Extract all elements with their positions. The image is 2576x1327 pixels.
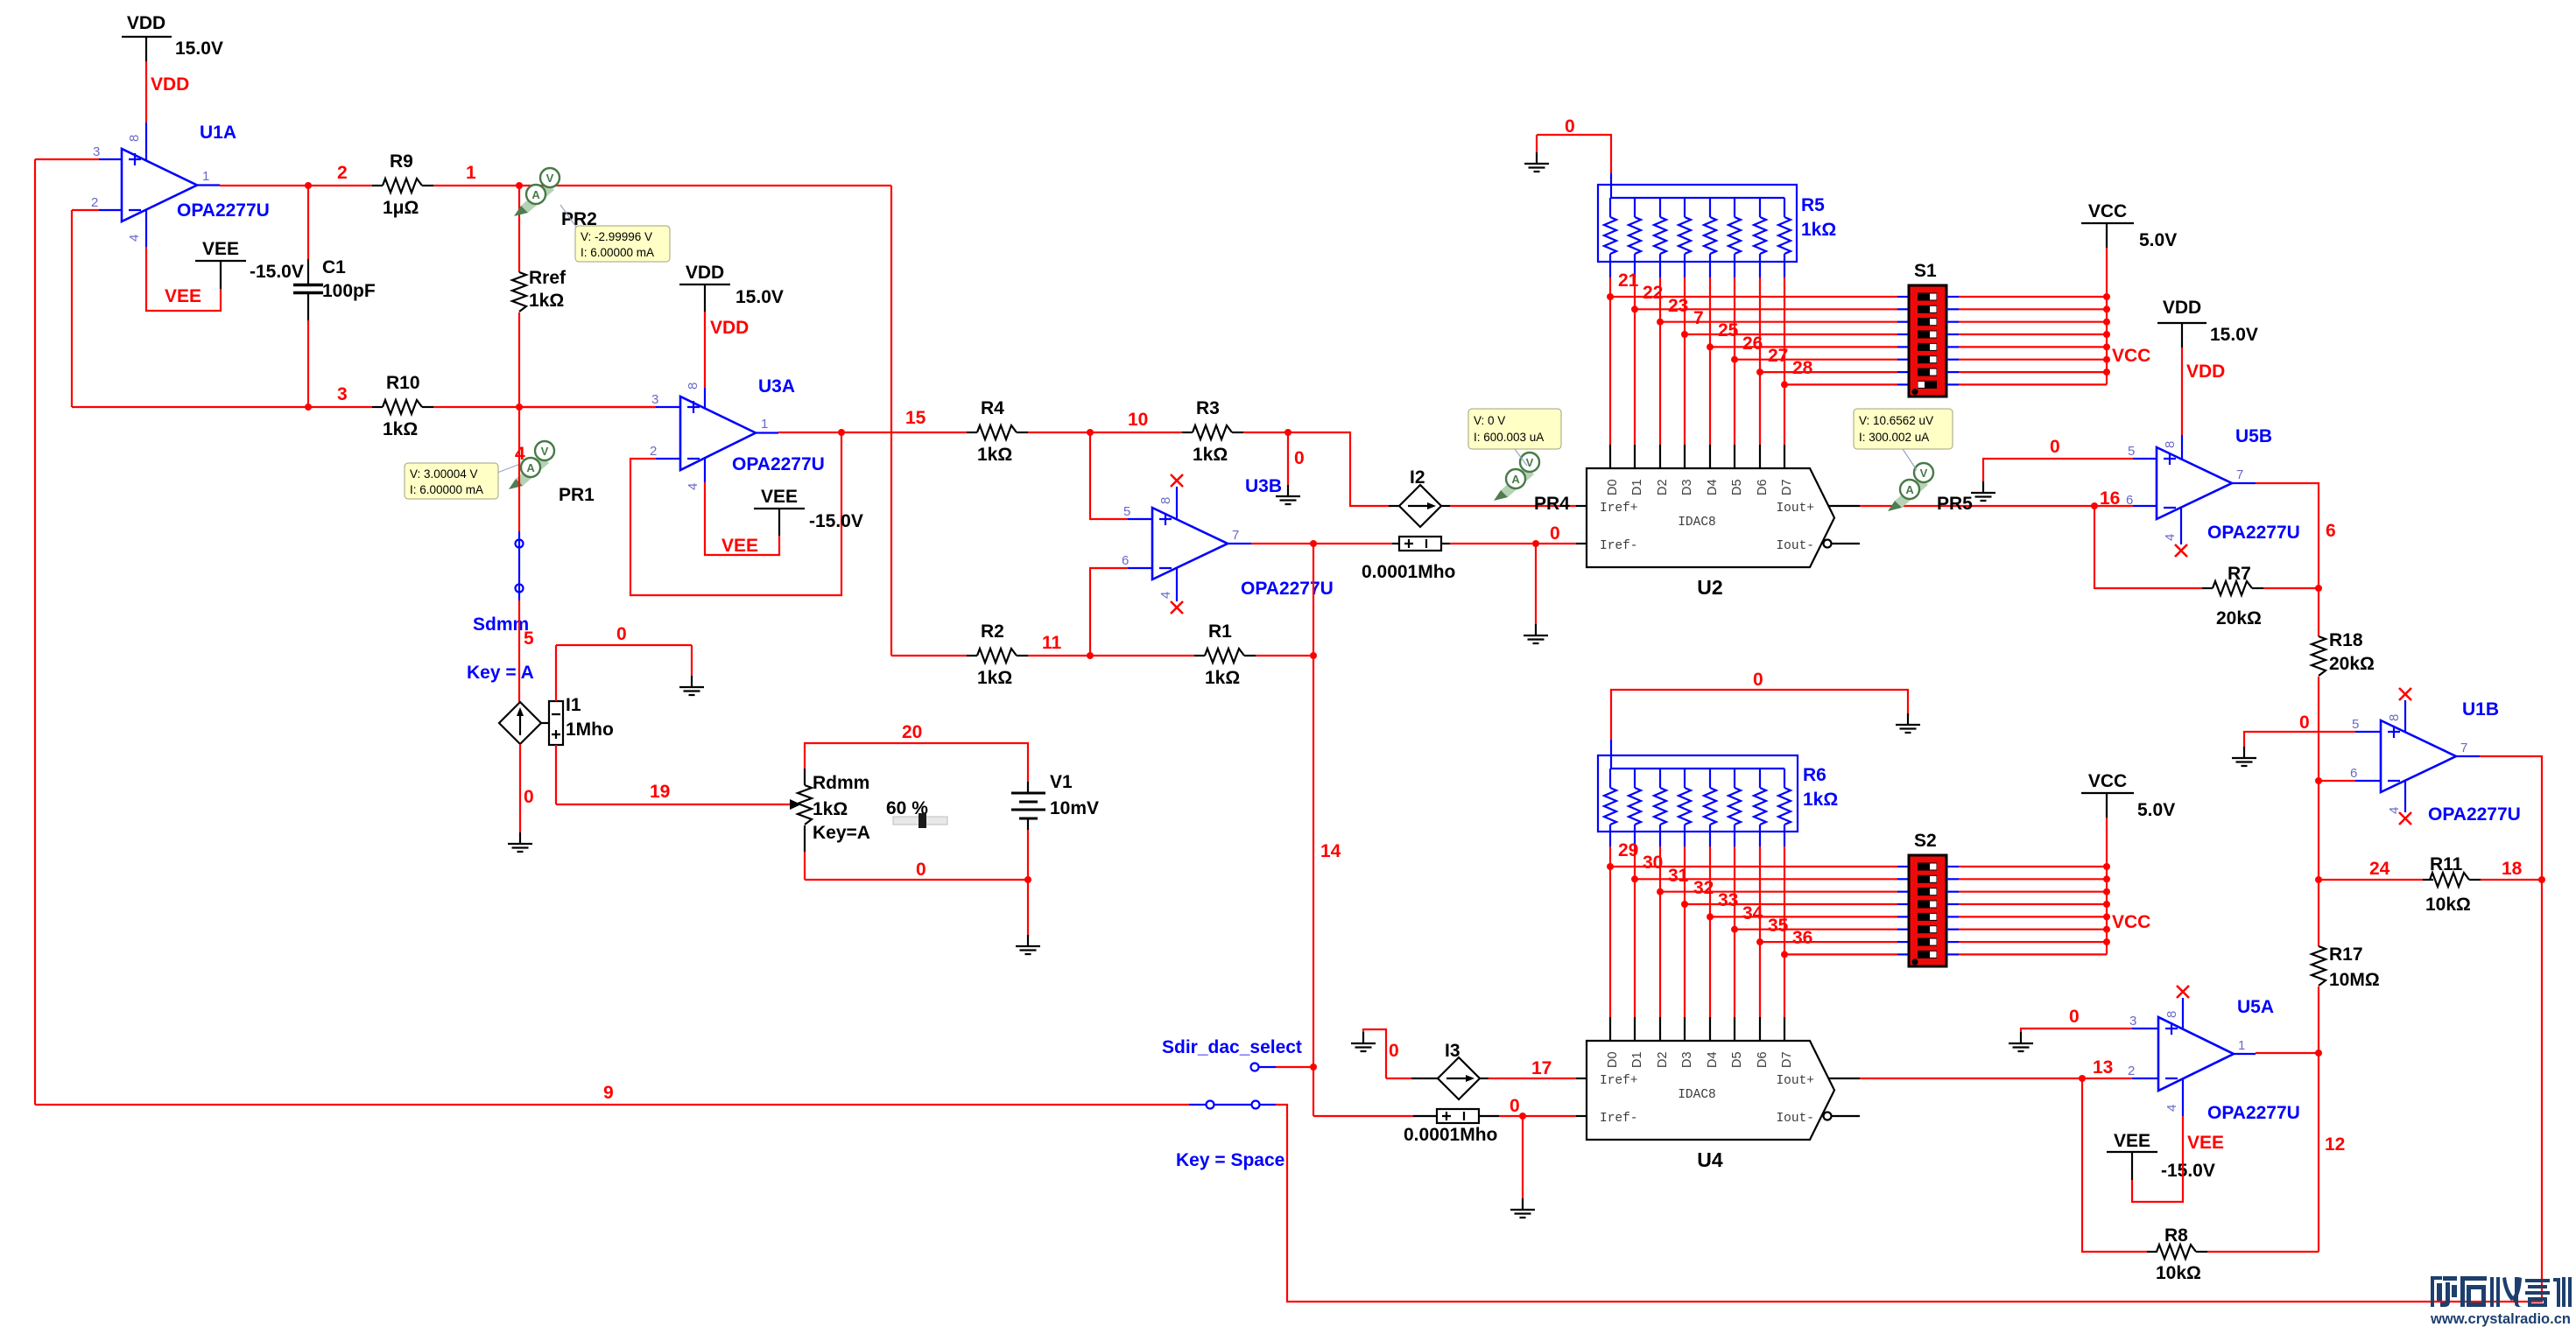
battery V1	[1011, 772, 1099, 830]
junctions VCC rail (S1)	[2103, 293, 2110, 376]
svg-text:26: 26	[1742, 334, 1763, 354]
svg-text:4: 4	[2164, 1105, 2179, 1112]
svg-text:R2: R2	[981, 621, 1004, 642]
wire net 13 (U4 Iout+ to U5A pin2)	[1860, 1078, 2082, 1079]
I1 sense element	[549, 701, 563, 745]
svg-text:IDAC8: IDAC8	[1678, 1088, 1716, 1102]
svg-text:VDD: VDD	[2186, 362, 2225, 382]
svg-text:36: 36	[1792, 928, 1812, 948]
I3 sense element	[1404, 1109, 1497, 1145]
op-amp U1B	[2350, 699, 2521, 825]
svg-text:25: 25	[1718, 320, 1739, 341]
wire U5B feedback (pin6 to R7)	[2094, 506, 2202, 588]
ground (I1 bottom)	[508, 832, 532, 852]
svg-text:VEE: VEE	[761, 487, 798, 507]
resistor R2	[967, 621, 1028, 688]
junction R11 left	[2315, 876, 2322, 883]
wire I2 sense right to U2 Iref-	[1441, 543, 1587, 544]
wire net 18 bottom loop	[1276, 880, 2542, 1302]
svg-text:1kΩ: 1kΩ	[383, 419, 418, 439]
svg-text:8: 8	[2387, 714, 2402, 721]
svg-text:5: 5	[2352, 717, 2359, 732]
wire taps nets 21-28 to S1	[1610, 297, 1897, 384]
svg-text:21: 21	[1618, 270, 1639, 291]
svg-text:U5A: U5A	[2237, 997, 2274, 1017]
svg-text:2: 2	[650, 444, 657, 459]
svg-text:5: 5	[524, 628, 534, 649]
junction U3B output	[1310, 540, 1317, 547]
DIP switch S1	[1909, 261, 1946, 397]
ground (U1B pin5)	[2232, 747, 2256, 766]
wire R6 outputs down to U4 data pins	[1610, 846, 1784, 1017]
svg-text:D1: D1	[1630, 1051, 1644, 1068]
resistor R9	[372, 151, 433, 218]
wire net 19 (I1 sense to Rdmm wiper)	[556, 745, 782, 804]
wire U1B pin5 net 0 to ground	[2244, 732, 2381, 747]
wire net 1 (R9 to corner, down to R2 row)	[433, 186, 891, 656]
junction net 16	[2091, 502, 2098, 509]
resistor R8	[2147, 1225, 2207, 1283]
svg-text:1kΩ: 1kΩ	[1803, 790, 1838, 810]
svg-text:D2: D2	[1656, 479, 1670, 495]
junction R7 right	[2315, 585, 2322, 592]
wire U3A output net 15	[756, 432, 967, 434]
wire U1A pin2 feedback from R10 row	[72, 210, 122, 407]
svg-text:7: 7	[1693, 308, 1704, 328]
wire R7 to net 6 vertical	[2263, 587, 2319, 589]
junction Iref- ground node	[1532, 540, 1539, 547]
svg-text:Iout-: Iout-	[1776, 539, 1814, 553]
svg-text:I2: I2	[1410, 467, 1425, 488]
svg-text:U1A: U1A	[200, 123, 236, 143]
svg-text:R11: R11	[2430, 854, 2463, 874]
svg-text:1kΩ: 1kΩ	[1801, 220, 1836, 240]
svg-text:U5B: U5B	[2235, 426, 2272, 446]
svg-text:24: 24	[2369, 859, 2390, 879]
U1B pin8 stub with X	[2399, 688, 2411, 732]
svg-text:29: 29	[1618, 840, 1638, 860]
svg-text:4: 4	[127, 235, 142, 242]
svg-text:V: 3.00004 V: V: 3.00004 V	[410, 467, 478, 481]
junction node 2 / C1 top	[305, 182, 312, 189]
svg-text:VDD: VDD	[686, 263, 724, 283]
junction C1 bottom	[305, 404, 312, 411]
svg-text:V: -2.99996 V: V: -2.99996 V	[581, 230, 652, 243]
svg-text:0: 0	[1550, 523, 1560, 544]
svg-text:1: 1	[202, 169, 209, 184]
svg-text:1kΩ: 1kΩ	[977, 668, 1012, 688]
svg-text:VDD: VDD	[710, 318, 749, 338]
junctions nets 29-36	[1607, 863, 1788, 958]
svg-text:R18: R18	[2329, 630, 2363, 650]
svg-text:7: 7	[2460, 741, 2467, 755]
svg-text:5.0V: 5.0V	[2137, 800, 2175, 820]
svg-text:VEE: VEE	[721, 536, 758, 556]
DIP switch S2	[1909, 831, 1946, 966]
svg-text:VDD: VDD	[127, 13, 165, 33]
svg-text:4: 4	[686, 483, 700, 490]
svg-text:I: 600.003 uA: I: 600.003 uA	[1474, 431, 1544, 444]
wire net 24 (R11 row)	[2319, 879, 2423, 881]
wire U3B pin6 from node 11	[1090, 568, 1152, 656]
wire S1 left stubs (blue)	[1897, 297, 1909, 384]
wire net 9 left vertical	[34, 159, 36, 1105]
junction U1B pin6 node	[2315, 777, 2322, 784]
svg-text:U1B: U1B	[2462, 699, 2499, 720]
svg-text:R6: R6	[1803, 765, 1826, 785]
svg-text:Key = Space: Key = Space	[1176, 1150, 1284, 1170]
wire taps nets 29-36 to S2	[1610, 867, 1897, 954]
IDAC8 U4	[1587, 1041, 1834, 1171]
svg-text:5.0V: 5.0V	[2139, 230, 2177, 250]
svg-text:VCC: VCC	[2088, 771, 2127, 791]
U3B pin8 stub with X	[1171, 474, 1183, 519]
svg-text:VEE: VEE	[165, 286, 201, 306]
svg-text:VEE: VEE	[2114, 1131, 2150, 1151]
wire net 1 to R2	[891, 655, 967, 656]
svg-text:8: 8	[2163, 441, 2178, 448]
probe PR1	[509, 441, 595, 505]
probe PR1 note	[405, 463, 520, 499]
wire Iref- node down to ground	[1535, 544, 1537, 624]
resistor Rref	[512, 186, 567, 407]
svg-text:U3A: U3A	[758, 376, 795, 397]
svg-text:1kΩ: 1kΩ	[1193, 445, 1228, 465]
svg-text:3: 3	[337, 384, 348, 404]
U4 Iout+ pin wire	[1828, 1078, 1860, 1079]
wire U3A pin4 to VEE	[705, 459, 779, 555]
svg-text:S2: S2	[1914, 831, 1937, 851]
wire S1 right stubs (blue)	[1946, 297, 1959, 384]
logo graphic	[2431, 1276, 2572, 1307]
svg-text:D7: D7	[1780, 479, 1794, 495]
wire I2 output to U2 Iref+	[1450, 505, 1587, 507]
wire S1 right rows to VCC rail	[1959, 248, 2107, 384]
svg-text:0: 0	[916, 860, 926, 880]
ground (Iref- net)	[1524, 624, 1548, 643]
probe PR5	[1888, 463, 1973, 514]
VEE power symbol (U3A supply)	[754, 487, 863, 536]
ground (V1 bottom)	[1016, 935, 1040, 954]
svg-text:R9: R9	[390, 151, 413, 172]
svg-text:D0: D0	[1606, 479, 1620, 495]
wire VDD to U5B pin8	[2181, 348, 2183, 459]
svg-text:Rref: Rref	[529, 268, 567, 288]
svg-text:23: 23	[1668, 296, 1688, 316]
wire net 0 above R6 to ground	[1611, 690, 1908, 740]
VEE power symbol (U5A supply)	[2107, 1131, 2215, 1181]
svg-text:R4: R4	[981, 398, 1004, 418]
junction U5A pin2	[2079, 1075, 2086, 1082]
wire net 9 (bottom long run)	[35, 1104, 1189, 1106]
svg-text:19: 19	[650, 782, 670, 802]
wire U3B pin5 from node 10	[1090, 432, 1152, 519]
svg-text:I: 6.00000 mA: I: 6.00000 mA	[410, 483, 483, 496]
svg-text:U2: U2	[1697, 576, 1722, 599]
svg-text:11: 11	[1042, 633, 1062, 653]
ground (R6 common)	[1896, 713, 1920, 733]
VDD power symbol (U3A supply)	[679, 263, 784, 312]
VDD power symbol (U5B supply)	[2157, 298, 2258, 348]
svg-text:4: 4	[1158, 592, 1173, 599]
svg-text:100pF: 100pF	[322, 281, 376, 301]
svg-text:1: 1	[761, 417, 768, 432]
svg-text:Key=A: Key=A	[813, 823, 870, 843]
svg-text:6: 6	[1122, 553, 1129, 568]
wire R8 to net 12	[2207, 1251, 2319, 1253]
wire node 0 to I2 input	[1288, 432, 1389, 506]
VEE power symbol (U1A supply)	[195, 239, 304, 289]
wire U4 Iref- node down to ground	[1522, 1116, 1524, 1198]
wire I1 bottom to ground	[519, 744, 521, 832]
svg-text:5: 5	[1123, 504, 1130, 519]
wire D-pin stubs U4 (black)	[1610, 1017, 1784, 1041]
wire S2 right rows to VCC rail	[1959, 818, 2107, 954]
resistor R7	[2202, 564, 2263, 628]
svg-text:9: 9	[603, 1083, 614, 1103]
svg-text:27: 27	[1768, 346, 1788, 366]
svg-text:www.crystalradio.cn: www.crystalradio.cn	[2430, 1310, 2571, 1327]
svg-text:0: 0	[616, 624, 627, 644]
svg-text:2: 2	[2128, 1064, 2135, 1078]
wire S2 right stubs (blue)	[1946, 867, 1959, 954]
svg-text:Iref-: Iref-	[1600, 1112, 1638, 1126]
svg-text:R17: R17	[2329, 944, 2363, 965]
svg-text:D5: D5	[1730, 1051, 1744, 1068]
svg-text:20kΩ: 20kΩ	[2216, 608, 2262, 628]
svg-text:Sdir_dac_select: Sdir_dac_select	[1162, 1037, 1302, 1057]
wire net 16 (U2 Iout+ to U5B pin6)	[1860, 505, 2157, 507]
wire U1B output net 18	[2456, 756, 2542, 880]
current source I2 (CCCS diamond)	[1389, 467, 1450, 527]
svg-text:34: 34	[1742, 903, 1763, 923]
svg-text:4: 4	[2163, 534, 2178, 541]
wire U1B pin6	[2319, 781, 2381, 880]
svg-text:6: 6	[2126, 493, 2133, 508]
svg-text:1: 1	[466, 163, 476, 183]
svg-text:D6: D6	[1756, 479, 1770, 495]
svg-text:OPA2277U: OPA2277U	[2428, 804, 2521, 825]
svg-text:R8: R8	[2164, 1225, 2188, 1246]
svg-text:28: 28	[1792, 358, 1813, 378]
junction node 0 (right of R3)	[1284, 429, 1292, 436]
svg-text:Iref+: Iref+	[1600, 1074, 1638, 1088]
svg-text:6: 6	[2326, 521, 2336, 541]
net labels 29 30 31 32 33 34 35 36	[1618, 840, 1812, 948]
junction R11 right	[2538, 876, 2545, 883]
svg-text:D0: D0	[1606, 1051, 1620, 1068]
wire R1 to net 14 vertical	[1256, 655, 1313, 656]
ground (R3 node 0)	[1276, 485, 1300, 504]
svg-text:16: 16	[2100, 488, 2120, 509]
wire net 3 (R10 row)	[72, 406, 372, 408]
VCC power symbol (S2)	[2081, 771, 2175, 820]
wire I3 output net 17 to U4 Iref+	[1480, 1078, 1587, 1079]
svg-text:Iout+: Iout+	[1776, 502, 1814, 516]
svg-text:0: 0	[524, 787, 534, 807]
wire U5A output net 12	[2234, 1053, 2319, 1054]
svg-text:0.0001Mho: 0.0001Mho	[1362, 562, 1455, 582]
svg-text:Sdmm: Sdmm	[473, 614, 529, 635]
svg-text:U3B: U3B	[1245, 476, 1282, 496]
svg-text:Rdmm: Rdmm	[813, 773, 869, 793]
resistor R11	[2423, 854, 2481, 915]
svg-text:VEE: VEE	[2187, 1133, 2224, 1153]
op-amp U1A	[91, 123, 270, 242]
svg-text:Iref+: Iref+	[1600, 502, 1638, 516]
ground (I3 top)	[1351, 1032, 1376, 1051]
junction R1 right on net 14	[1310, 652, 1317, 659]
junction U3A feedback node	[838, 429, 845, 436]
svg-text:Iref-: Iref-	[1600, 539, 1638, 553]
wire net 0 above R5 to ground	[1537, 135, 1611, 173]
svg-text:PR1: PR1	[559, 485, 595, 505]
svg-text:1kΩ: 1kΩ	[1205, 668, 1240, 688]
VDD power symbol (U1A supply)	[122, 13, 223, 61]
wire net 14 vertical	[1313, 544, 1314, 1116]
wire U5A pin3 net 0 to ground	[2021, 1029, 2158, 1032]
svg-text:8: 8	[686, 383, 700, 390]
ground (U5B pin5)	[1971, 481, 1995, 501]
svg-text:15.0V: 15.0V	[735, 287, 784, 307]
svg-text:U4: U4	[1697, 1148, 1723, 1171]
svg-text:20kΩ: 20kΩ	[2329, 654, 2375, 674]
svg-text:OPA2277U: OPA2277U	[177, 200, 270, 221]
svg-text:V1: V1	[1050, 772, 1073, 792]
wire U5B pin5 net 0 to ground	[1983, 459, 2157, 481]
wire R10 to node 4	[433, 406, 656, 408]
svg-text:0: 0	[2069, 1007, 2080, 1027]
svg-text:I1: I1	[566, 695, 581, 715]
wire U5A pin2 net 13	[2082, 1078, 2158, 1079]
wire I2 sense left lead	[1392, 543, 1399, 544]
switch Key = Space	[1176, 1101, 1284, 1171]
svg-text:13: 13	[2093, 1057, 2113, 1078]
svg-text:7: 7	[2236, 467, 2243, 482]
resistor pack R5	[1598, 173, 1836, 277]
wire node 4 to U3A pin3	[519, 406, 680, 408]
svg-text:Iout+: Iout+	[1776, 1074, 1814, 1088]
wire net 13 down to R8	[2082, 1078, 2147, 1252]
svg-text:D4: D4	[1706, 1051, 1720, 1068]
wire U5A pin4 to VEE	[2132, 1079, 2183, 1202]
svg-text:0: 0	[1389, 1041, 1399, 1061]
wire net 20 (Rdmm top to V1 top)	[805, 743, 1028, 782]
svg-text:1kΩ: 1kΩ	[529, 291, 564, 311]
junction U5A output	[2315, 1050, 2322, 1057]
resistor R18	[2312, 588, 2375, 781]
wire U3B output net 14	[1228, 543, 1392, 544]
wire net 0 (V1 bottom / Rdmm bottom)	[805, 830, 1028, 935]
I2 sense element	[1362, 537, 1455, 582]
svg-text:7: 7	[1232, 528, 1239, 543]
svg-text:17: 17	[1531, 1058, 1552, 1078]
probe PR4	[1494, 453, 1570, 514]
svg-text:5: 5	[2128, 444, 2135, 459]
svg-text:0: 0	[1510, 1096, 1520, 1116]
svg-text:0: 0	[2050, 437, 2060, 457]
wire switch to I1	[518, 600, 520, 702]
Rdmm slider 60%	[886, 798, 947, 828]
node Sdir_dac_select	[1162, 1037, 1313, 1071]
svg-text:10kΩ: 10kΩ	[2156, 1263, 2201, 1283]
probe PR2	[514, 168, 597, 229]
svg-text:10mV: 10mV	[1050, 798, 1099, 818]
svg-text:15: 15	[905, 408, 926, 428]
svg-text:I3: I3	[1445, 1041, 1460, 1061]
svg-text:0: 0	[1565, 116, 1575, 137]
svg-text:OPA2277U: OPA2277U	[732, 454, 825, 474]
wire I1 sense top to ground	[556, 645, 692, 701]
wire VDD to U1A pin8	[145, 61, 147, 160]
switch Sdmm	[467, 531, 534, 683]
svg-text:1Mho: 1Mho	[566, 720, 614, 740]
svg-text:VEE: VEE	[202, 239, 239, 259]
wire I3 sense right to U4 Iref-	[1479, 1115, 1587, 1117]
U2 Iout- bubble and stub	[1824, 540, 1861, 548]
IDAC8 U2	[1587, 468, 1834, 599]
wire net 12 vertical	[2318, 1053, 2319, 1252]
svg-text:S1: S1	[1914, 261, 1937, 281]
resistor R4	[967, 398, 1028, 465]
wire VDD to U3A pin8	[704, 312, 706, 408]
probe PR4 note	[1468, 409, 1561, 466]
svg-text:D7: D7	[1780, 1051, 1794, 1068]
wire U1A pin4 to VEE	[146, 210, 221, 311]
junction Sdir stub on net 14	[1310, 1064, 1317, 1071]
svg-text:33: 33	[1718, 890, 1738, 910]
svg-text:1: 1	[2238, 1038, 2245, 1053]
U1B pin4 stub with X	[2399, 781, 2411, 825]
svg-text:3: 3	[2129, 1014, 2136, 1029]
svg-text:Key = A: Key = A	[467, 663, 534, 683]
resistor R10	[372, 373, 433, 439]
resistor R3	[1182, 398, 1243, 465]
probe PR2 note	[560, 205, 670, 262]
svg-text:3: 3	[93, 144, 100, 159]
wire U3A pin2 feedback loop	[630, 432, 841, 595]
svg-text:VDD: VDD	[151, 74, 189, 95]
svg-text:PR5: PR5	[1937, 494, 1973, 514]
junction U4 Iref- ground node	[1519, 1113, 1526, 1120]
svg-text:PR4: PR4	[1534, 494, 1570, 514]
svg-text:VCC: VCC	[2112, 346, 2150, 366]
svg-text:-15.0V: -15.0V	[2161, 1161, 2215, 1181]
wire net 10 (R4 to R3)	[1028, 432, 1182, 433]
svg-text:VCC: VCC	[2112, 912, 2150, 932]
svg-text:I: 6.00000 mA: I: 6.00000 mA	[581, 246, 654, 259]
svg-text:OPA2277U: OPA2277U	[2207, 1103, 2300, 1123]
svg-text:1μΩ: 1μΩ	[383, 198, 419, 218]
svg-text:IDAC8: IDAC8	[1678, 516, 1716, 530]
svg-text:30: 30	[1643, 853, 1663, 873]
svg-text:VCC: VCC	[2088, 201, 2127, 221]
svg-text:OPA2277U: OPA2277U	[2207, 523, 2300, 543]
ground (I1 top net)	[679, 676, 704, 695]
wire D-pin stubs U2 (black)	[1610, 445, 1784, 468]
svg-text:14: 14	[1320, 841, 1341, 861]
probe PR5 note	[1854, 409, 1953, 470]
svg-text:D4: D4	[1706, 479, 1720, 495]
svg-text:R7: R7	[2228, 564, 2251, 584]
op-amp U5A	[2128, 997, 2300, 1123]
net labels 21 22 23 7 25 26 27 28	[1618, 270, 1813, 378]
junction node 1 / Rref top	[516, 182, 523, 189]
svg-text:8: 8	[127, 135, 142, 142]
capacitor C1	[293, 186, 376, 407]
junction node 4	[516, 404, 523, 411]
op-amp U3B	[1122, 476, 1334, 599]
